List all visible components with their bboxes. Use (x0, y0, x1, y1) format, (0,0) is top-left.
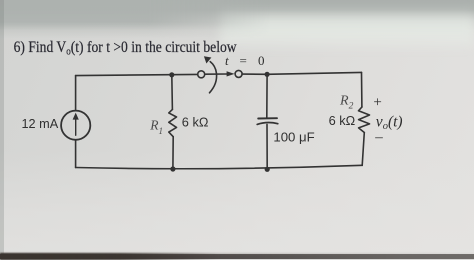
svg-text:100 μF: 100 μF (273, 130, 314, 145)
switch SW1 right contact circle (235, 70, 242, 77)
wire: right vertical lower (362, 133, 364, 166)
capacitor C1 bottom plate (257, 123, 278, 125)
svg-text:vo(t): vo(t) (376, 113, 403, 132)
resistor R2 zigzag (359, 107, 370, 133)
wire: top right of switch to corner (242, 72, 361, 74)
label: t = 0 (225, 53, 265, 68)
junction dot: R1 top (169, 72, 174, 77)
current source I1 circle (61, 111, 90, 140)
svg-text:t: t (225, 53, 229, 68)
svg-text:R2: R2 (339, 93, 354, 111)
capacitor C1 top plate (258, 117, 277, 119)
wire: capacitor branch lower (266, 124, 268, 169)
switch SW1 blade arrowhead (227, 71, 235, 76)
current source I1 arrowhead (73, 113, 79, 120)
svg-text:–: – (374, 130, 383, 146)
resistor R1 zigzag (169, 109, 177, 136)
switch SW1 blade line with arrow (205, 73, 227, 75)
wire: top-left horizontal (source to switch) (76, 74, 198, 75)
svg-text:6 kΩ: 6 kΩ (329, 113, 356, 128)
svg-text:6) Find Vo(t) for t >0 in the: 6) Find Vo(t) for t >0 in the circuit be… (14, 39, 237, 58)
wire: bottom horizontal (76, 165, 363, 168)
svg-text:6 kΩ: 6 kΩ (182, 114, 209, 129)
wire: left vertical lower (75, 140, 77, 168)
title: 6) Find Vo(t) for t>0 in the circuit below (14, 39, 237, 58)
junction dot: capacitor bottom (265, 167, 270, 172)
current source I1 arrow shaft (75, 118, 77, 135)
wire: capacitor branch upper (266, 74, 268, 118)
wire: R1 branch lower (172, 137, 174, 169)
svg-text:=: = (240, 53, 247, 68)
wire: R1 branch upper (171, 75, 174, 110)
svg-text:12 mA: 12 mA (22, 117, 59, 131)
svg-text:+: + (373, 94, 381, 110)
junction dot: R1 bottom (170, 166, 175, 171)
wire: left vertical upper (75, 76, 77, 111)
junction dot: capacitor top (265, 72, 270, 77)
svg-text:R1: R1 (149, 118, 163, 136)
wire: right vertical upper (361, 72, 363, 107)
svg-text:0: 0 (258, 53, 265, 68)
switch SW1 arc arrowhead (204, 56, 212, 63)
switch SW1 left contact circle (198, 71, 205, 78)
switch SW1 opening arc (210, 62, 217, 93)
